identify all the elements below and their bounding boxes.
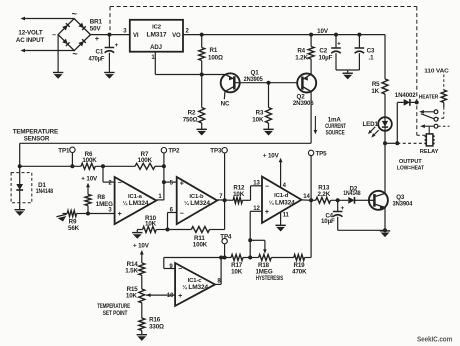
svg-text:SeekIC.com: SeekIC.com — [417, 337, 452, 344]
label R1 100ohm — [208, 47, 223, 61]
wire IC1-b output — [217, 199, 233, 201]
label HEATER — [419, 95, 439, 101]
svg-text:10K: 10K — [126, 293, 138, 300]
BR1 diode upper-left — [62, 23, 69, 30]
test point TP4 — [220, 233, 232, 244]
svg-text:VI: VI — [133, 33, 139, 39]
test point TP1 — [58, 147, 75, 154]
label R3 10K — [252, 110, 264, 124]
current source arrow — [314, 116, 318, 134]
wire junction to Q3 collector — [384, 143, 386, 193]
node LED junction — [383, 141, 387, 145]
AC input line bottom — [21, 49, 75, 53]
wire R12 to pin13 — [242, 186, 262, 201]
BR1 diode lower-left — [62, 39, 69, 46]
node hysteresis junction — [248, 256, 252, 260]
label R10 10K — [145, 215, 157, 228]
wire R6 to R7 — [95, 165, 135, 167]
svg-text:10µF: 10µF — [321, 218, 335, 225]
svg-text:SENSOR: SENSOR — [24, 135, 50, 142]
relay contact circle 2 — [434, 117, 438, 121]
resistor R12 — [233, 197, 242, 203]
svg-text:12-VOLT: 12-VOLT — [18, 30, 42, 37]
svg-text:RELAY: RELAY — [420, 149, 439, 155]
resistor R6 — [81, 163, 95, 169]
wire TP1 stub — [71, 153, 73, 167]
wire coil to contact — [428, 126, 430, 134]
svg-text:BR1: BR1 — [90, 18, 103, 25]
svg-text:−: − — [118, 180, 122, 187]
node TP4 bus junction — [223, 256, 227, 260]
svg-text:~: ~ — [72, 9, 77, 19]
pin ADJ — [150, 45, 162, 51]
wire flyback riser — [397, 102, 403, 143]
pin number 1 — [151, 55, 155, 61]
svg-text:11: 11 — [283, 212, 290, 218]
capacitor C2 — [331, 35, 341, 70]
wire Q1 base to Q2 base — [234, 82, 297, 84]
capacitor C3 — [355, 35, 365, 70]
wire R19 riser to output — [305, 200, 312, 257]
resistor R15 pot — [139, 289, 145, 318]
watermark SeekIC.com — [417, 337, 452, 344]
label C2 10uF — [319, 48, 333, 62]
svg-text:IC1-a: IC1-a — [128, 194, 143, 200]
label R5 1K — [371, 81, 380, 95]
svg-text:¼ LM324: ¼ LM324 — [182, 284, 209, 291]
diode D1 1N4148 — [16, 184, 23, 210]
ground left end R10 — [132, 230, 142, 239]
wire IC1-d pin11 ground — [280, 212, 282, 225]
sensor dashed box — [11, 173, 32, 203]
wire TP4 stub — [224, 244, 226, 257]
label 110 VAC — [424, 68, 449, 74]
ground below R16 — [137, 335, 147, 341]
svg-text:470K: 470K — [292, 269, 307, 276]
svg-text:HEATER: HEATER — [419, 95, 439, 101]
svg-text:IC2: IC2 — [152, 24, 162, 30]
label 12-VOLT AC INPUT — [16, 30, 45, 44]
wire R1 to Q1 emitter — [202, 74, 226, 76]
wire TP3 stub — [224, 153, 226, 200]
label R6 100K — [82, 151, 97, 164]
svg-text:TP5: TP5 — [316, 150, 328, 157]
svg-text:.1: .1 — [369, 54, 375, 61]
label C4 10uF — [321, 212, 335, 225]
dashed wire VAC to heater — [443, 75, 445, 91]
svg-text:50V: 50V — [90, 25, 102, 32]
svg-text:1MEG: 1MEG — [255, 268, 272, 275]
svg-text:–: – — [52, 32, 56, 39]
node R18 wiper junction — [248, 238, 252, 242]
AC input line top — [21, 17, 74, 21]
label R2 750ohm — [183, 110, 198, 124]
wire R9 to IC1-a pin3 — [88, 213, 115, 215]
svg-text:LM317: LM317 — [147, 32, 167, 39]
transistor Q3 3N3904 — [369, 191, 388, 210]
svg-text:110 VAC: 110 VAC — [424, 68, 449, 74]
svg-text:10K: 10K — [252, 116, 264, 123]
svg-text:100Ω: 100Ω — [208, 54, 223, 61]
relay contact blade 1 — [421, 114, 434, 119]
diode D2 1N4148 — [348, 197, 369, 204]
dashed stub contact 3 — [438, 125, 450, 127]
svg-text:1N4148: 1N4148 — [343, 190, 361, 197]
node flyback junction — [395, 141, 399, 145]
svg-text:+: + — [114, 42, 118, 49]
svg-text:TP1: TP1 — [58, 147, 70, 154]
wire IC1-c output riser — [215, 258, 221, 285]
wire IC1-b pin5 — [164, 181, 177, 183]
transistor Q2 2N3906 — [297, 74, 316, 93]
label R15 10K — [126, 286, 138, 299]
svg-text:1N4002: 1N4002 — [395, 92, 416, 99]
label +10V IC1-d — [263, 152, 280, 159]
svg-text:OUTPUT: OUTPUT — [399, 159, 422, 165]
BR1 plus sign — [95, 36, 99, 43]
wire R17 to junction — [243, 257, 259, 259]
wire rail corner to R5 — [384, 35, 386, 79]
wire Q2 collector down — [310, 92, 312, 144]
label LM317 — [147, 32, 167, 39]
pin VO — [172, 33, 181, 39]
svg-text:LOW=HEAT: LOW=HEAT — [397, 165, 425, 171]
op-amp U1a IC1-a — [108, 177, 162, 224]
wire bridge plus to LM317 VI — [91, 34, 130, 36]
dashed boundary left drop — [109, 7, 111, 35]
wire IC1-b pin6 jog — [168, 213, 177, 230]
wire sensor bus — [20, 142, 311, 144]
pin number 3 — [123, 28, 127, 34]
BR1 minus sign — [52, 32, 56, 39]
capacitor C4 — [333, 200, 345, 230]
label R14 1.5K — [125, 261, 138, 275]
svg-text:1.5K: 1.5K — [125, 268, 138, 275]
ground IC1-d pin11 — [275, 225, 285, 231]
resistor R2 — [199, 75, 205, 130]
svg-text:+: + — [337, 41, 341, 48]
wire IC1-d pin12 jog — [250, 211, 262, 257]
label R13 2.2K — [318, 184, 331, 197]
svg-text:2N3905: 2N3905 — [244, 76, 264, 83]
label TEMPERATURE SENSOR — [13, 129, 58, 143]
label LED1 — [362, 121, 378, 128]
LED LED1 — [378, 117, 392, 131]
svg-text:1.2K: 1.2K — [295, 54, 308, 61]
svg-text:IC1-d: IC1-d — [274, 193, 289, 199]
wire jog to IC1-a pin2 — [103, 166, 115, 182]
svg-text:LED1: LED1 — [362, 121, 378, 128]
node TP2 junction — [162, 164, 166, 168]
label R18 1MEG HYSTERESIS — [255, 262, 283, 282]
svg-text:+: + — [265, 209, 269, 216]
test point TP5 — [308, 150, 327, 157]
svg-text:−: − — [180, 211, 184, 218]
wire R8 supply arrow — [86, 183, 90, 195]
dashed boundary top — [110, 6, 417, 8]
svg-text:AC INPUT: AC INPUT — [16, 37, 45, 44]
svg-text:100K: 100K — [193, 241, 208, 248]
svg-text:+: + — [178, 293, 182, 300]
ground left of R9 — [56, 214, 68, 223]
op-amp U1b IC1-b — [170, 177, 224, 224]
svg-text:TP3: TP3 — [210, 148, 222, 155]
svg-text:+: + — [118, 211, 122, 218]
wire IC1-d pin4 supply — [279, 158, 283, 188]
wire IC1-a output — [156, 199, 164, 201]
node sensor R6 junction — [18, 164, 22, 168]
label TEMPERATURE SET POINT — [97, 304, 130, 317]
BR1 diode lower-right — [78, 39, 85, 46]
label 1mA CURRENT SOURCE — [325, 117, 346, 137]
label R16 330ohm — [149, 317, 164, 331]
node R1 ADJ junction — [200, 73, 204, 77]
resistor R11 — [191, 227, 209, 233]
wire C4 to Q3 ground — [338, 229, 385, 231]
wire IC1-c pin9 feedback — [164, 258, 221, 269]
node IC1-d output junction — [309, 198, 313, 202]
node rail C3 — [357, 33, 361, 37]
label D1 1N4148 — [36, 182, 54, 195]
label D2 1N4148 — [343, 186, 361, 198]
node R8 R9 junction — [86, 212, 90, 216]
node TP1 junction — [70, 164, 74, 168]
node C4 junction — [336, 198, 340, 202]
heater resistor — [441, 90, 446, 107]
wire sensor drop — [19, 143, 21, 184]
node 1N4002 boundary junction — [415, 100, 419, 104]
pin VI — [133, 33, 139, 39]
wire 10V rail — [183, 34, 385, 36]
label Q2 2N3906 — [293, 93, 314, 107]
svg-text:R5: R5 — [372, 81, 380, 88]
label Q1 2N3905 — [244, 69, 264, 83]
node R3 junction — [267, 81, 271, 85]
dashed boundary right drop — [416, 7, 418, 136]
svg-text:IC1-c: IC1-c — [188, 278, 203, 284]
svg-text:+ 10V: + 10V — [263, 152, 280, 159]
transistor Q1 2N3905 — [221, 73, 240, 99]
ground below C2 C3 — [343, 73, 353, 79]
node rail C2 — [334, 33, 338, 37]
svg-text:SET POINT: SET POINT — [103, 311, 128, 317]
LED1 emission arrows — [367, 127, 379, 139]
svg-text:10V: 10V — [317, 28, 329, 35]
label RELAY — [420, 149, 439, 155]
svg-text:750Ω: 750Ω — [183, 116, 198, 123]
resistor R7 — [135, 163, 155, 169]
svg-text:−: − — [265, 183, 269, 190]
dashed wire heater to contact — [438, 107, 444, 118]
ground below bridge — [53, 73, 63, 79]
svg-text:14: 14 — [303, 194, 310, 200]
svg-text:VO: VO — [172, 33, 181, 39]
label IC2 — [152, 24, 162, 30]
node pin2 jog junction — [101, 164, 105, 168]
svg-text:10K: 10K — [231, 269, 243, 276]
label R7 100K — [138, 151, 153, 164]
svg-text:ADJ: ADJ — [150, 45, 162, 51]
wire TP5 to comparator output — [310, 156, 312, 200]
svg-text:TEMPERATURE: TEMPERATURE — [97, 304, 130, 310]
BR1 AC tilde top — [72, 9, 77, 19]
svg-text:100K: 100K — [138, 157, 153, 164]
svg-text:10K: 10K — [145, 221, 157, 228]
dashed wire to relay coil — [397, 142, 426, 144]
resistor R9 — [63, 211, 89, 217]
svg-text:13: 13 — [253, 180, 260, 186]
wire LED junction to flyback — [385, 142, 397, 144]
node IC1-b pin5 branch — [162, 180, 166, 184]
resistor R4 — [308, 35, 314, 75]
ground below D1 — [15, 210, 25, 216]
wire IC1-d output — [301, 199, 311, 201]
wire bridge minus to ground — [57, 35, 59, 73]
BR1 diode upper-right — [78, 23, 85, 30]
label R8 1MEG — [96, 194, 113, 208]
node pin6 junction — [166, 228, 170, 232]
op-amp U1c IC1-c — [167, 263, 222, 306]
ground below R3 — [263, 129, 273, 135]
svg-text:TP4: TP4 — [220, 233, 232, 240]
resistor R3 — [266, 83, 272, 130]
svg-text:+: + — [180, 180, 184, 187]
relay coil — [425, 134, 435, 146]
diode 1N4002 — [404, 99, 417, 106]
ground below Q3 — [380, 231, 390, 237]
wire ADJ pin — [155, 52, 201, 75]
resistor R17 — [231, 255, 243, 261]
svg-text:10µF: 10µF — [319, 54, 333, 61]
wire R18 to R19 — [271, 257, 294, 259]
relay contact circle 3 — [434, 124, 438, 128]
resistor R1 — [199, 35, 205, 75]
op-amp U1d IC1-d — [253, 177, 310, 223]
wire feedback bus — [137, 229, 224, 231]
pin number 2 — [186, 28, 190, 34]
svg-text:R1: R1 — [210, 47, 218, 54]
R15 wiper — [146, 293, 175, 297]
label BR1 50V — [90, 18, 103, 32]
BR1 AC tilde bottom — [72, 49, 77, 59]
label R4 1.2K — [295, 48, 308, 62]
svg-text:330Ω: 330Ω — [149, 323, 164, 330]
wire bus to R17 — [221, 257, 231, 259]
label R9 56K — [68, 218, 80, 232]
node Q3 emitter ground junction — [383, 228, 387, 232]
svg-text:1K: 1K — [371, 88, 379, 95]
resistor R19 — [294, 255, 305, 261]
label R19 470K — [292, 262, 307, 276]
label C3 .1 — [367, 48, 375, 62]
svg-text:C1: C1 — [96, 48, 104, 55]
wire TP2 riser and pin1 drop — [163, 153, 165, 200]
bridge rectifier BR1 diamond — [58, 19, 90, 51]
ground below C1 — [104, 73, 114, 79]
svg-text:~: ~ — [72, 49, 77, 59]
relay contact pole 1 — [419, 110, 434, 114]
test point TP3 — [210, 148, 227, 155]
wire R13 to D2 — [331, 199, 349, 201]
label 10V — [317, 28, 329, 35]
node rail R1 — [200, 33, 204, 37]
svg-text:10K: 10K — [233, 191, 245, 198]
node IC1-c output junction — [219, 256, 223, 260]
resistor R13 — [316, 197, 331, 203]
dashed boundary elbow to coil — [417, 134, 427, 136]
svg-text:¼ LM324: ¼ LM324 — [184, 200, 211, 207]
resistor R10 — [143, 227, 157, 233]
wire R11 corner to output — [224, 200, 226, 229]
svg-text:¼ LM324: ¼ LM324 — [269, 199, 296, 206]
svg-text:+: + — [340, 205, 344, 212]
resistor R8 — [85, 194, 91, 213]
ground below R2 — [197, 129, 207, 135]
wire C2 C3 join — [336, 70, 359, 73]
label 1N4002 — [395, 92, 416, 99]
wire Q3 emitter to ground — [384, 207, 386, 230]
node IC1-b output junction — [223, 198, 227, 202]
label NC — [221, 101, 230, 108]
svg-text:NC: NC — [221, 101, 230, 108]
svg-text:SOURCE: SOURCE — [326, 129, 345, 136]
label OUTPUT LOW=HEAT — [397, 159, 425, 172]
svg-text:HYSTERESIS: HYSTERESIS — [256, 276, 283, 282]
resistor R18 rheostat — [259, 255, 272, 261]
svg-text:56K: 56K — [68, 225, 80, 232]
svg-text:3N3904: 3N3904 — [393, 201, 413, 208]
wire output to R13 — [311, 199, 316, 201]
regulator IC2 LM317 box — [130, 20, 183, 52]
label R17 10K — [231, 262, 243, 276]
relay contact circle 1 — [434, 110, 438, 114]
resistor R5 — [382, 79, 388, 117]
label R12 10K — [233, 185, 245, 198]
test point TP2 — [161, 148, 180, 155]
label Q3 3N3904 — [393, 194, 413, 208]
resistor R16 — [139, 318, 145, 335]
svg-text:IC1-b: IC1-b — [189, 194, 204, 200]
relay contact pole 2 — [420, 124, 434, 128]
svg-text:100K: 100K — [82, 157, 97, 164]
label +10V R8 — [81, 176, 98, 183]
node rail R4 — [309, 33, 313, 37]
svg-text:+ 10V: + 10V — [81, 176, 98, 183]
wire LED1 to junction — [384, 131, 386, 144]
wire R7 to TP2 junction — [155, 165, 164, 167]
svg-text:2.2K: 2.2K — [318, 191, 331, 198]
svg-text:−: − — [178, 266, 182, 273]
node C1 junction — [107, 33, 111, 37]
svg-text:¼ LM324: ¼ LM324 — [123, 200, 150, 207]
wire sensor to R6 — [20, 165, 81, 167]
wire setpoint supply arrow — [140, 250, 144, 263]
label R11 100K — [193, 235, 208, 249]
svg-text:+ 10V: + 10V — [133, 243, 150, 250]
label +10V setpoint — [133, 243, 150, 250]
svg-text:10: 10 — [167, 293, 174, 299]
resistor R14 — [139, 263, 145, 289]
svg-text:1N4148: 1N4148 — [36, 188, 54, 195]
svg-text:470µF: 470µF — [89, 56, 105, 63]
R18 wiper bracket — [250, 240, 267, 253]
svg-text:+: + — [95, 36, 99, 43]
capacitor C1 — [105, 35, 119, 73]
svg-text:TP2: TP2 — [168, 148, 180, 155]
label C1 470uF — [89, 48, 105, 62]
